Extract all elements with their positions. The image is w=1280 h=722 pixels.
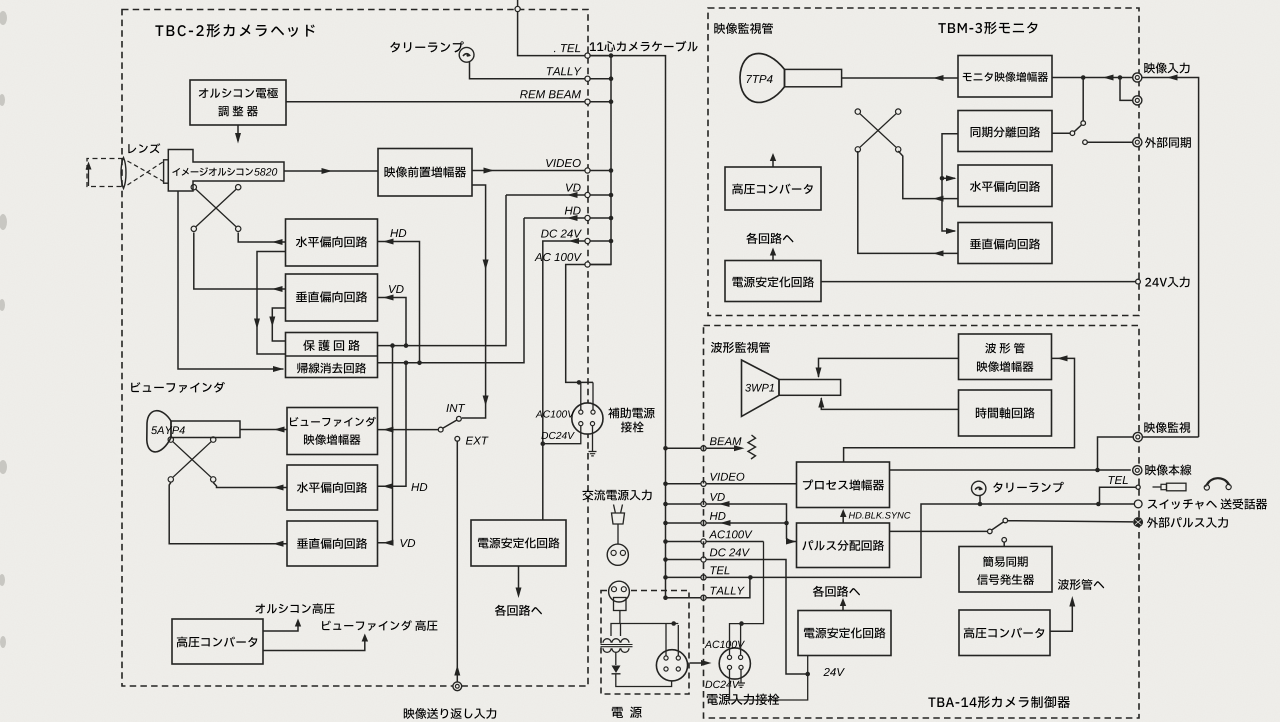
wire inlet DC pin to stabilizer 24V <box>730 670 808 701</box>
dashed enclosure TBA-14 camera control <box>704 326 1140 719</box>
wire cable trunk down <box>590 56 665 598</box>
label DC24V inlet <box>705 681 739 688</box>
label TBC-2形カメラヘッド <box>155 24 314 37</box>
box vertical deflection 1 垂直偏向回路 <box>286 274 378 321</box>
label AC100V aux <box>535 410 574 417</box>
wire bus camera side <box>590 56 611 265</box>
label VD viewfinder <box>400 539 415 547</box>
wire AC100V edge to bus <box>590 264 611 266</box>
monitor CRT 7TP4 <box>740 54 785 103</box>
terminal fan VIDEO <box>701 481 706 486</box>
terminal TEL on TBC edge <box>585 53 590 58</box>
wire DC24V fan down <box>706 560 806 675</box>
label HD.BLK.SYNC <box>849 512 911 519</box>
connector video loop out <box>1133 96 1142 105</box>
tally lamp control <box>972 481 986 495</box>
transformer <box>603 639 629 653</box>
wire TALLY edge to bus <box>590 78 611 80</box>
wire aux connector pin DC to stabilizer <box>544 426 581 444</box>
label 映像監視 <box>1144 422 1190 433</box>
wire VIDEO edge to bus <box>590 170 611 172</box>
label 映像本線 <box>1145 464 1191 475</box>
box sync separator 同期分離回路 <box>958 111 1052 152</box>
wire VD edge to bus <box>590 194 611 196</box>
wire preamp to INT switch <box>462 185 486 418</box>
wire video monitor out <box>1098 437 1133 470</box>
label レンズ <box>128 143 160 153</box>
box monitor HV converter 高圧コンバータ <box>725 167 821 210</box>
label 電源 <box>612 706 642 717</box>
wire BEAM with rheostat <box>706 447 741 449</box>
wire vf yoke to vertical deflection 2 <box>169 483 287 544</box>
label TBA-14形カメラ制御器 <box>928 696 1070 708</box>
power inlet connector 電源入力接栓 <box>719 648 750 679</box>
wire TEL terminal branch <box>1100 487 1137 504</box>
monitor yoke coil <box>860 114 896 147</box>
box HV converter 高圧コンバータ <box>172 619 263 664</box>
wire VD into camera <box>506 194 585 196</box>
terminal HD on TBC edge <box>585 215 590 220</box>
wire process amp to waveform amp <box>844 358 1075 462</box>
box control stabilizer 電源安定化回路 <box>798 611 891 656</box>
box monitor stabilizer 電源安定化回路 <box>725 261 821 302</box>
wire adjuster down arrow <box>237 125 239 141</box>
connector 映像監視 <box>1133 432 1142 441</box>
label 交流電源入力 <box>583 490 652 501</box>
terminal fan TALLY <box>701 595 706 600</box>
wire TEL edge to bus <box>590 55 611 57</box>
wire fan TALLY <box>666 597 702 599</box>
box waveform video amp 波形管映像増幅器 <box>959 334 1052 380</box>
switch common contact <box>438 427 443 432</box>
terminal fan HD <box>701 520 706 525</box>
label tally lamp タリーランプ <box>390 41 463 52</box>
wire monitor stabilizer up arrow <box>772 251 774 261</box>
viewfinder yoke coil <box>173 442 211 477</box>
diode <box>612 666 621 674</box>
label 外部パルス入力 <box>1147 517 1228 528</box>
wire transformer feed <box>611 624 678 637</box>
box monitor horizontal deflection 水平偏向回路 <box>958 165 1052 207</box>
box horizontal deflection 2 水平偏向回路 <box>287 465 378 510</box>
label VD <box>389 285 404 293</box>
wire yoke to horizontal deflection <box>238 233 285 243</box>
power inlet plug body <box>614 598 627 611</box>
wire transformer to diode <box>615 652 617 665</box>
terminal DC24V on TBC edge <box>585 238 590 243</box>
wire control stabilizer up arrow <box>842 601 844 611</box>
wire pulse distributor to process amp <box>842 511 844 523</box>
wire yoke to vertical deflection <box>194 233 286 290</box>
terminal fan BEAM <box>701 446 706 451</box>
wire fan AC100V <box>666 541 702 543</box>
wire VD cable to protection circuit <box>378 195 507 346</box>
dashed enclosure TBM-3 monitor <box>708 8 1139 316</box>
wire video input from control <box>1142 78 1199 438</box>
label 映像送り返し入力 <box>404 708 496 719</box>
wire inlet AC pins up to AC100V line <box>730 542 764 656</box>
wire tube target to blanking circuit <box>178 191 284 369</box>
wire plug connector top pins <box>665 624 667 656</box>
power inlet socket symbol <box>609 581 630 602</box>
label HD viewfinder <box>411 483 427 491</box>
label fan HD <box>710 512 726 520</box>
wire process amp to video line out <box>890 469 1131 471</box>
wire HD edge to bus <box>590 217 611 219</box>
label 波形管へ <box>1058 579 1104 590</box>
terminal AC100V on TBC edge <box>585 262 590 267</box>
box time base 時間軸回路 <box>959 390 1052 436</box>
wire DC24V edge to bus <box>590 240 611 242</box>
switch EXT contact <box>455 436 460 441</box>
label HD <box>390 229 406 237</box>
wire pulse distributor to sync switch <box>890 530 988 532</box>
label 各回路へ monitor <box>746 233 793 244</box>
wire video input to monitor amp <box>1052 77 1133 79</box>
wire AC100V into camera <box>566 265 593 383</box>
deflection yoke coil camera <box>196 189 236 226</box>
dashed light rays lens to tube <box>128 161 164 182</box>
label fan BEAM <box>710 437 742 445</box>
label 24V入力 <box>1145 277 1189 288</box>
box control HV converter 高圧コンバータ <box>959 610 1050 656</box>
AC socket symbol <box>607 544 628 565</box>
wire AC100V fan to inlet connector <box>706 541 763 543</box>
wire TEL from top <box>517 0 519 7</box>
wire sync separator to deflections <box>942 134 958 231</box>
arrow up on object box <box>88 164 90 186</box>
switch lower contact to sync generator <box>1002 538 1007 543</box>
label タリーランプ control <box>993 482 1063 493</box>
wire vf amp to crt <box>240 429 287 431</box>
box preamp 映像前置増幅器 <box>378 149 472 197</box>
terminal fan AC100V <box>701 539 706 544</box>
wire REM BEAM edge to bus <box>590 101 611 103</box>
connector 映像本線 <box>1133 466 1142 475</box>
wire VD down to viewfinder vertical deflection <box>378 346 393 543</box>
wire stabilizer down arrow <box>518 566 520 595</box>
wire video out tube to preamp <box>284 170 378 172</box>
waveform CRT 3WP1 <box>742 360 780 416</box>
box sync generator 簡易同期信号発生器 <box>959 547 1052 593</box>
label 映像入力 <box>1144 62 1189 73</box>
label 補助電源接栓 <box>608 408 654 419</box>
wire to video input right side <box>1143 436 1199 438</box>
terminal 24V input <box>1136 279 1141 284</box>
wire HD cable to blanking circuit <box>378 218 525 363</box>
label REM BEAM <box>520 90 581 98</box>
box vertical deflection 2 垂直偏向回路 <box>287 521 378 566</box>
wire monitor HV up arrow <box>772 156 774 167</box>
terminal fan TEL <box>701 575 706 580</box>
label TEL control <box>1109 476 1128 484</box>
wire monitor amp to crt <box>842 77 958 79</box>
label スイッチャへ 送受話器 <box>1148 499 1267 510</box>
box process amp プロセス増幅器 <box>797 462 890 508</box>
wire fan BEAM <box>666 447 702 449</box>
terminal TALLY on TBC edge <box>585 76 590 81</box>
auxiliary power connector 補助電源接栓 <box>572 403 603 434</box>
image orthicon tube body イメージオルシコン5820 <box>168 150 284 192</box>
label DC24V aux <box>541 432 574 439</box>
label INT <box>446 404 465 412</box>
wire fan DC24V <box>666 559 702 561</box>
dashed enclosure TBC-2 camera head <box>122 10 588 687</box>
wire HD into camera <box>524 217 585 219</box>
wire yoke to monitor horizontal deflection <box>898 151 958 199</box>
wire HV to waveform tube <box>1050 599 1072 631</box>
terminal TEL on top edge <box>515 6 520 11</box>
wire video input loopthrough <box>1120 78 1133 101</box>
label 各回路へ control <box>813 586 860 597</box>
wire waveform amp to crt grid <box>819 358 959 377</box>
switch INT contact <box>457 416 462 421</box>
power unit dashed box 電源 <box>601 591 689 695</box>
lens element <box>121 158 126 189</box>
label AC100V inlet <box>704 641 744 648</box>
wire DC24V into camera <box>543 241 585 520</box>
phone plug symbol <box>1153 486 1162 488</box>
label TBM-3形モニタ <box>938 22 1037 34</box>
wire tally lamp stub <box>979 496 981 504</box>
label 波形監視管 <box>711 342 770 353</box>
wire to external pulse input <box>1008 521 1133 522</box>
terminal fan DC24V <box>701 557 706 562</box>
wire time base to crt <box>821 398 958 409</box>
wire 24V input to stabilizer <box>821 281 1136 283</box>
label 11心カメラケーブル <box>590 41 698 52</box>
box viewfinder video amp ビューファインダ映像増幅器 <box>287 408 378 455</box>
terminal TEL out <box>1136 485 1140 489</box>
box monitor video amp モニタ映像増幅器 <box>958 56 1052 98</box>
wire fan TEL <box>666 576 702 578</box>
label 各回路へ camera <box>495 605 542 616</box>
label 外部同期 <box>1145 137 1191 148</box>
wire HD to horizontal deflection 1 <box>378 242 420 363</box>
box pulse distributor パルス分配回路 <box>797 523 890 568</box>
arrow plug into camera control inlet <box>690 662 708 664</box>
terminal REM BEAM on TBC edge <box>585 99 590 104</box>
wire HD down to viewfinder horizontal deflection <box>378 363 407 486</box>
label fan DC24V <box>710 548 750 556</box>
wire VIDEO to process amp <box>706 483 796 485</box>
label fan VD <box>710 493 724 501</box>
terminal VIDEO on TBC edge <box>585 168 590 173</box>
wire 24V into stabilizer <box>807 656 809 675</box>
handset symbol <box>1206 478 1230 487</box>
terminal return video input <box>453 682 462 691</box>
wire HV to orthicon <box>263 622 298 631</box>
wire fan VD <box>666 503 702 505</box>
wire tally lamp to TALLY line <box>470 62 586 79</box>
box power stabilizer 電源安定化回路 camera <box>471 520 566 566</box>
wire diode to plug connector <box>616 674 672 686</box>
wire aux connector pins AC <box>580 382 582 410</box>
box protection 保護回路 / blanking 帰線消去回路 <box>286 333 378 378</box>
sync source switch <box>988 529 993 534</box>
connector 映像入力 <box>1133 73 1142 82</box>
label AC100V <box>534 253 581 261</box>
switch blade <box>443 420 457 428</box>
wire VD to vertical deflection 1 <box>378 298 407 346</box>
wire TEL fan to handset <box>706 504 1134 577</box>
tally lamp PL1 <box>459 47 474 62</box>
label fan AC100V <box>709 530 753 538</box>
wire aux connector ground pin <box>592 426 594 451</box>
box monitor vertical deflection 垂直偏向回路 <box>958 223 1052 264</box>
label VIDEO <box>546 159 581 167</box>
label TEL <box>554 44 580 52</box>
wire horiz1 to protection <box>257 252 286 355</box>
label 電源入力接栓 <box>707 694 780 705</box>
terminal VD on TBC edge <box>585 192 590 197</box>
wire TALLY fan join <box>706 577 750 597</box>
wire yoke to monitor vertical deflection <box>858 151 958 253</box>
wire VIDEO preamp to edge <box>472 170 585 172</box>
label fan TEL <box>711 566 730 574</box>
label VD <box>566 184 581 192</box>
wire HV to viewfinder <box>263 637 365 651</box>
box horizontal deflection 1 水平偏向回路 <box>286 219 378 266</box>
label EXT <box>466 437 489 445</box>
terminal fan VD <box>701 501 706 506</box>
wire REM BEAM from adjuster <box>286 101 585 103</box>
wire external sync <box>1083 140 1088 145</box>
scan smudges left edge <box>0 11 7 648</box>
wire EXT to return video input <box>456 441 458 682</box>
wire VD to pulse distributor <box>706 504 786 523</box>
label DC24V <box>541 229 582 237</box>
label TALLY <box>547 67 582 75</box>
dashed object box left of lens <box>87 159 123 187</box>
wire switch to viewfinder amp <box>378 429 439 431</box>
sync selector switch <box>1082 78 1084 121</box>
label fan TALLY <box>711 587 745 595</box>
viewfinder CRT 5AYP4 <box>147 411 171 452</box>
wire fan VIDEO <box>666 483 702 485</box>
wire vf yoke to horizontal deflection 2 <box>213 483 287 488</box>
wire inlet ground pin <box>740 670 742 683</box>
label オルシコン高圧 <box>255 603 334 614</box>
wire HD to pulse distributor <box>706 523 796 542</box>
AC plug symbol <box>614 505 616 513</box>
label ビューファインダ <box>131 382 225 393</box>
image orthicon tube faceplate <box>164 160 169 183</box>
connector 外部パルス入力 <box>1134 518 1143 527</box>
label fan VIDEO <box>710 473 744 481</box>
terminal handset スイッチャへ <box>1134 500 1142 508</box>
label ビューファインダ高圧 <box>322 620 437 631</box>
wire fan HD <box>666 522 702 524</box>
box orthicon electrode adjuster オルシコン電極調整器 <box>190 80 286 125</box>
label 24V <box>823 668 844 676</box>
connector 外部同期 <box>1133 138 1142 147</box>
label 映像監視管 <box>714 23 773 34</box>
power cord plug connector 4pin <box>656 650 687 681</box>
wire vert1 to protection <box>272 308 285 341</box>
label HD <box>565 207 581 215</box>
